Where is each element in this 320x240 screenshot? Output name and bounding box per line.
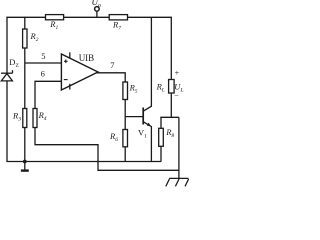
svg-text:RL: RL	[156, 82, 165, 94]
op-amp plus mark	[64, 60, 68, 62]
wire pin6	[35, 81, 61, 108]
resistor R5 body	[123, 82, 128, 100]
svg-text:DZ: DZ	[9, 57, 19, 69]
wire R8 branch	[160, 117, 162, 128]
resistor R4 body	[33, 109, 37, 128]
svg-text:R8: R8	[165, 127, 174, 139]
svg-text:R3: R3	[12, 110, 21, 122]
svg-text:Uo: Uo	[92, 0, 102, 9]
svg-text:R1: R1	[49, 19, 58, 31]
wire feedback from R4 bottom	[35, 128, 179, 171]
wire pin5	[25, 62, 62, 64]
resistor R8 body	[159, 128, 164, 146]
op-amp minus mark	[64, 79, 68, 81]
wire top horizontal	[6, 16, 172, 18]
svg-text:R4: R4	[38, 110, 47, 122]
svg-text:R6: R6	[109, 131, 118, 143]
wire RL branch	[170, 17, 172, 79]
wire node under RL	[160, 116, 179, 118]
resistor R6 body	[123, 130, 128, 147]
svg-text:−: −	[174, 91, 179, 100]
wire left rail	[6, 17, 8, 162]
node junction dot	[23, 160, 27, 164]
svg-text:5: 5	[41, 51, 45, 61]
svg-text:R5: R5	[129, 83, 138, 95]
resistor RL body	[169, 80, 175, 94]
resistor R3 body	[23, 109, 27, 128]
op-amp power ticks	[69, 52, 71, 58]
terminal Uo	[96, 11, 98, 17]
wire pin7 output	[97, 73, 126, 82]
ground	[24, 162, 26, 170]
op-amp U1B triangle	[61, 54, 98, 90]
wire bottom rail	[6, 161, 161, 163]
svg-text:R7: R7	[112, 20, 121, 32]
wire R5-R6 vertical	[124, 100, 126, 130]
svg-text:6: 6	[41, 68, 45, 78]
svg-text:R2: R2	[30, 31, 39, 43]
wire R2-R3 vertical	[24, 17, 26, 162]
svg-text:+: +	[175, 69, 180, 78]
transistor V1	[142, 108, 144, 125]
resistor R1 body	[46, 15, 64, 20]
chassis ground	[169, 177, 188, 179]
wire base	[125, 116, 143, 118]
zener diode Dz	[1, 72, 13, 74]
svg-text:V1: V1	[138, 128, 147, 140]
wire right vertical to ground	[178, 117, 180, 178]
svg-text:7: 7	[110, 60, 114, 70]
svg-text:UIB: UIB	[79, 53, 95, 63]
resistor R7 body	[109, 15, 127, 20]
resistor R2 body	[23, 29, 27, 48]
